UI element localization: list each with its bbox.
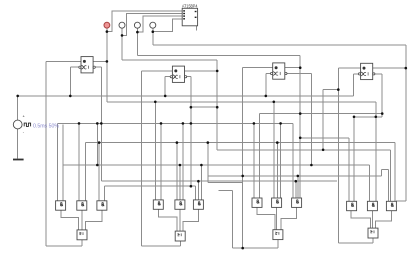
flip-flop FF2 (170, 66, 187, 82)
AND gate A4 (347, 201, 357, 210)
wire W3 corner down (299, 55, 301, 67)
wire feedback FB4 bottom (338, 242, 373, 244)
clock source V1 symbol (24, 123, 30, 126)
wire B3 out to G3 (276, 208, 278, 230)
AND gate C3 (292, 198, 302, 207)
junction busA tap B2 (176, 141, 179, 144)
AND gate B2 (175, 200, 185, 209)
wire C3 out to G3 (281, 208, 297, 230)
wire FF2 D input (142, 70, 173, 72)
wire FF3 Q output (285, 67, 300, 69)
wire feedback FB1 left (45, 61, 47, 246)
junction Q1 tap B3 (273, 101, 276, 104)
junction H3 tap A2b (160, 122, 163, 125)
wire y176 into C4 left (388, 169, 390, 201)
wire FF4 clock stub (353, 74, 360, 96)
wire LED3 drop (136, 32, 138, 55)
wire y186 horizontal (104, 185, 195, 187)
wire FF3 D input (243, 67, 273, 69)
junction y166 tap B2c (179, 164, 182, 167)
wire seg y176 (208, 175, 382, 177)
clock source V1 minus (23, 130, 25, 135)
wire Q4 drop (405, 68, 407, 201)
junction seg y176 on FB3 (241, 175, 244, 178)
LED1 red (104, 22, 110, 28)
OR gate G2 (175, 231, 185, 241)
wire busA right corner to C4 (394, 143, 396, 202)
clock source V1 value label (33, 123, 59, 129)
wire LED2 horizontal to Q2 (122, 59, 217, 61)
wire y181 tap to C2 (197, 181, 199, 200)
wire FF4 D input (338, 67, 360, 69)
wire H3 left corner to A1 (56, 123, 58, 201)
AND gate A2 (153, 200, 163, 209)
junction Q3 on bus4 (299, 112, 302, 115)
junction H3 tap B3c (279, 122, 282, 125)
wire LED1 to U1 pin1 (107, 11, 182, 32)
wire LED4 drop (152, 32, 154, 46)
wire y166 left corner to A1 (62, 125, 64, 202)
wire OR G3 output (277, 240, 279, 249)
junction H3 tap A3a (253, 122, 256, 125)
wire LED4 pin stub (152, 28, 154, 31)
OR gate G4 (368, 228, 378, 238)
junction clock FF1 (69, 95, 72, 98)
wire y166 tap to C2 (200, 165, 202, 200)
junction H3 tap B1 (78, 122, 81, 125)
wire seg y190 (219, 190, 233, 192)
junction y166 tap97 (96, 164, 99, 167)
wire LED2 drop (121, 35, 123, 60)
junction bridge A4 tap (353, 116, 356, 119)
wire FF1 Q output (93, 60, 107, 62)
wire seg vert232 (232, 191, 234, 249)
junction busA tap207 (207, 141, 210, 144)
junction Qbar2 on y186 (190, 185, 193, 188)
wire clock bus H1 (18, 95, 354, 97)
wire OR G4 output (372, 238, 374, 243)
wire Q4 horizontal to C4 (396, 200, 406, 202)
junction Qbar1 tap C3mid (295, 180, 298, 183)
LED3 (134, 22, 140, 28)
wire y186 left corner to C1 (103, 186, 105, 201)
wire busA tap to C1 (98, 143, 100, 201)
wire A2 input right (160, 123, 162, 199)
AND gate C4 (386, 201, 396, 210)
wire C1 out to G1 (86, 210, 102, 230)
junction LED3 pin (136, 31, 139, 34)
junction clock FF2 (164, 95, 167, 98)
wire LED1 pin stub (106, 28, 108, 31)
wire busA left corner to B1 (85, 143, 87, 201)
wire W4 horizontal (153, 44, 406, 46)
wire FF2 clock stub (165, 77, 172, 96)
wire Q2 drop to bus (216, 71, 218, 150)
IC U1 box (182, 8, 197, 26)
wire Q1 bus horizontal (107, 101, 376, 103)
wire y166 right corner to B4 (368, 165, 370, 201)
wire FB4 branch horizontal (323, 89, 338, 91)
wire tap97 drop (96, 123, 98, 165)
wire U1 bottom stub (196, 26, 198, 31)
AND gate C2 (193, 200, 203, 209)
wire OR G2 output (179, 241, 181, 246)
junction node Q1 (106, 60, 109, 63)
wire Q1 bus drop (106, 61, 108, 101)
wire Qbar2 drop (190, 77, 192, 187)
wire y176 jog right (382, 168, 389, 170)
junction y176 tap C3 (297, 175, 300, 178)
clock source V1 circle (13, 120, 22, 129)
wire feedback FB4 left (337, 68, 339, 243)
junction Qbar3 on y166 (310, 164, 313, 167)
wire C4 out to G4 (376, 211, 392, 228)
wire FF2 Q output (184, 70, 217, 72)
wire Qbar3 drop (310, 74, 312, 166)
LED4 (150, 22, 156, 28)
junction Q3 tap H4 (299, 137, 302, 140)
wire clock to ground (17, 129, 19, 159)
wire A3 out to G3 (257, 208, 275, 230)
wire B2 out to G2 (179, 209, 181, 231)
junction y107 left (190, 106, 193, 109)
wire clock source to bus (17, 96, 19, 120)
wire H3 horizontal (57, 122, 293, 124)
junction node Q3 (299, 66, 302, 69)
svg-text:AT15BP4: AT15BP4 (182, 3, 198, 8)
wire feedback FB3 bottom (233, 247, 279, 249)
wire FF1 Qbar stub (95, 66, 101, 68)
svg-text:0.5ms 50%: 0.5ms 50% (33, 123, 59, 129)
wire H4 right corner to A4 (348, 138, 350, 202)
wire B4 out to G4 (371, 211, 373, 228)
junction Qbar2 on H3 (190, 122, 193, 125)
wire Q2 corner down (216, 60, 218, 71)
junction node Q4 (405, 67, 408, 70)
wire FF3 clock stub (266, 74, 273, 96)
junction LED2 pin (121, 34, 124, 37)
IC U1 left pin marks (183, 11, 185, 19)
wire A1 out to G1 (61, 210, 78, 230)
junction H3 tap corner97 (96, 122, 99, 125)
wire H3 tap to B2 (182, 123, 184, 199)
wire Qbar4 drop (381, 74, 383, 117)
wire Q1 end down to bridge (375, 102, 377, 117)
wire bridge tap to A4 (353, 117, 355, 202)
LED2 (119, 22, 125, 28)
AND gate B4 (367, 201, 377, 210)
wire A4 out to G4 (351, 211, 370, 228)
junction busA tap B3 (276, 141, 279, 144)
junction Q1 tap A2 (154, 101, 157, 104)
wire Q4 into AND C4 (395, 200, 397, 203)
wire Qbar4 bridge (354, 116, 382, 118)
junction clock FF3 (265, 95, 268, 98)
wire B1 out to G1 (81, 210, 83, 230)
wire feedback FB1 bottom (46, 245, 82, 247)
wire bus4 left corner to A3 (258, 114, 260, 198)
wire H5 right corner to C4 (390, 150, 392, 202)
wire y186 right corner to C2 (194, 186, 196, 200)
wire A2 out to G2 (158, 209, 177, 231)
junction FB3 bottom (241, 247, 244, 250)
flip-flop FF3 (271, 63, 288, 79)
junction bus4 end on Qbar4 (381, 112, 384, 115)
wire LED1 drop to Q1 node (106, 32, 108, 62)
junction H3 tap B2 (182, 122, 185, 125)
junction busA tap C1 (98, 141, 101, 144)
wire FF1 clock stub (70, 67, 81, 96)
wire bridge tap to B4 (375, 117, 377, 202)
OR gate G3 (273, 230, 283, 240)
wire FF4 Qbar stub (375, 73, 382, 75)
wire busA tap to B2 (176, 143, 178, 200)
wire feedback FB3 left (242, 68, 244, 248)
junction y107 right (216, 106, 219, 109)
wire FF2 Qbar stub (187, 76, 191, 78)
wire bus4 horizontal (259, 113, 382, 115)
wire LED3 to U1 pin3 (137, 16, 182, 32)
wire B3 input right (280, 123, 282, 198)
AND gate C1 (97, 201, 107, 210)
wire FF4 Q output (373, 67, 406, 69)
wire feedback FB2 bottom (142, 245, 181, 247)
AND gate A3 (252, 198, 262, 207)
wire H3 tap to B1 (78, 123, 80, 200)
junction LED4 pin (152, 30, 155, 33)
junction node Q2 (216, 70, 219, 73)
OR gate G1 (77, 230, 87, 240)
flip-flop FF4 (358, 63, 375, 79)
wire Q1 tap to AND A2 (154, 102, 156, 200)
wire seg y107 bridge (191, 106, 217, 108)
junction bridge B4 tap (375, 116, 378, 119)
IC U1 label (182, 3, 198, 8)
wire y176 jog up (381, 169, 383, 176)
junction y166 tap C2 (200, 164, 203, 167)
junction clock bus left (16, 95, 19, 98)
wire FF3 Qbar stub (287, 73, 311, 75)
junction FB4 branch on H5 (322, 149, 325, 152)
wire Qbar1 drop (100, 67, 102, 181)
wire C2 out to G2 (183, 209, 198, 231)
wire A3 input left (253, 123, 255, 198)
ground (13, 159, 24, 161)
junction y181 tap C2mid (197, 180, 200, 183)
wire y166 tap to B2 (179, 165, 181, 200)
wire OR G1 output (81, 240, 83, 246)
wire seg y182 (208, 181, 243, 183)
AND gate B1 (77, 201, 87, 210)
wire H4 horizontal (300, 137, 349, 139)
wire FF1 D input (46, 60, 81, 62)
wire W3 horizontal (137, 54, 300, 56)
wire Q3 drop (299, 68, 301, 198)
wire FB4 branch drop (322, 90, 324, 150)
wire Q1 tap to AND B3 (273, 102, 275, 198)
junction Qbar1 on H3 (100, 122, 103, 125)
wire LED2 to U1 pin2 (122, 14, 182, 36)
wire LED3 pin stub (136, 28, 138, 32)
wire LED2 pin stub (121, 28, 123, 35)
wire H5 horizontal (217, 149, 390, 151)
wire Qbar1 horizontal y181 (101, 180, 337, 182)
junction FB4 branch (337, 88, 340, 91)
wire H3 right corner to C3 (292, 123, 294, 198)
AND gate B3 (272, 198, 282, 207)
wire busA tap to B3 (276, 143, 278, 198)
flip-flop FF1 (79, 57, 95, 73)
IC U1 right pin marks (195, 12, 197, 18)
wire y181 tap to C3 (295, 181, 297, 198)
wire y166 horizontal (63, 164, 369, 166)
AND gate A1 (56, 201, 66, 210)
wire seg vert207 (207, 143, 209, 183)
wire y176 tap to C3 (297, 176, 299, 198)
junction LED1 pin (106, 30, 109, 33)
wire LED4 to U1 pin4 (153, 19, 182, 32)
wire busA horizontal (86, 142, 396, 144)
wire feedback FB2 left (141, 71, 143, 246)
wire W4 corner down (405, 45, 407, 68)
clock source V1 plus (23, 114, 26, 119)
